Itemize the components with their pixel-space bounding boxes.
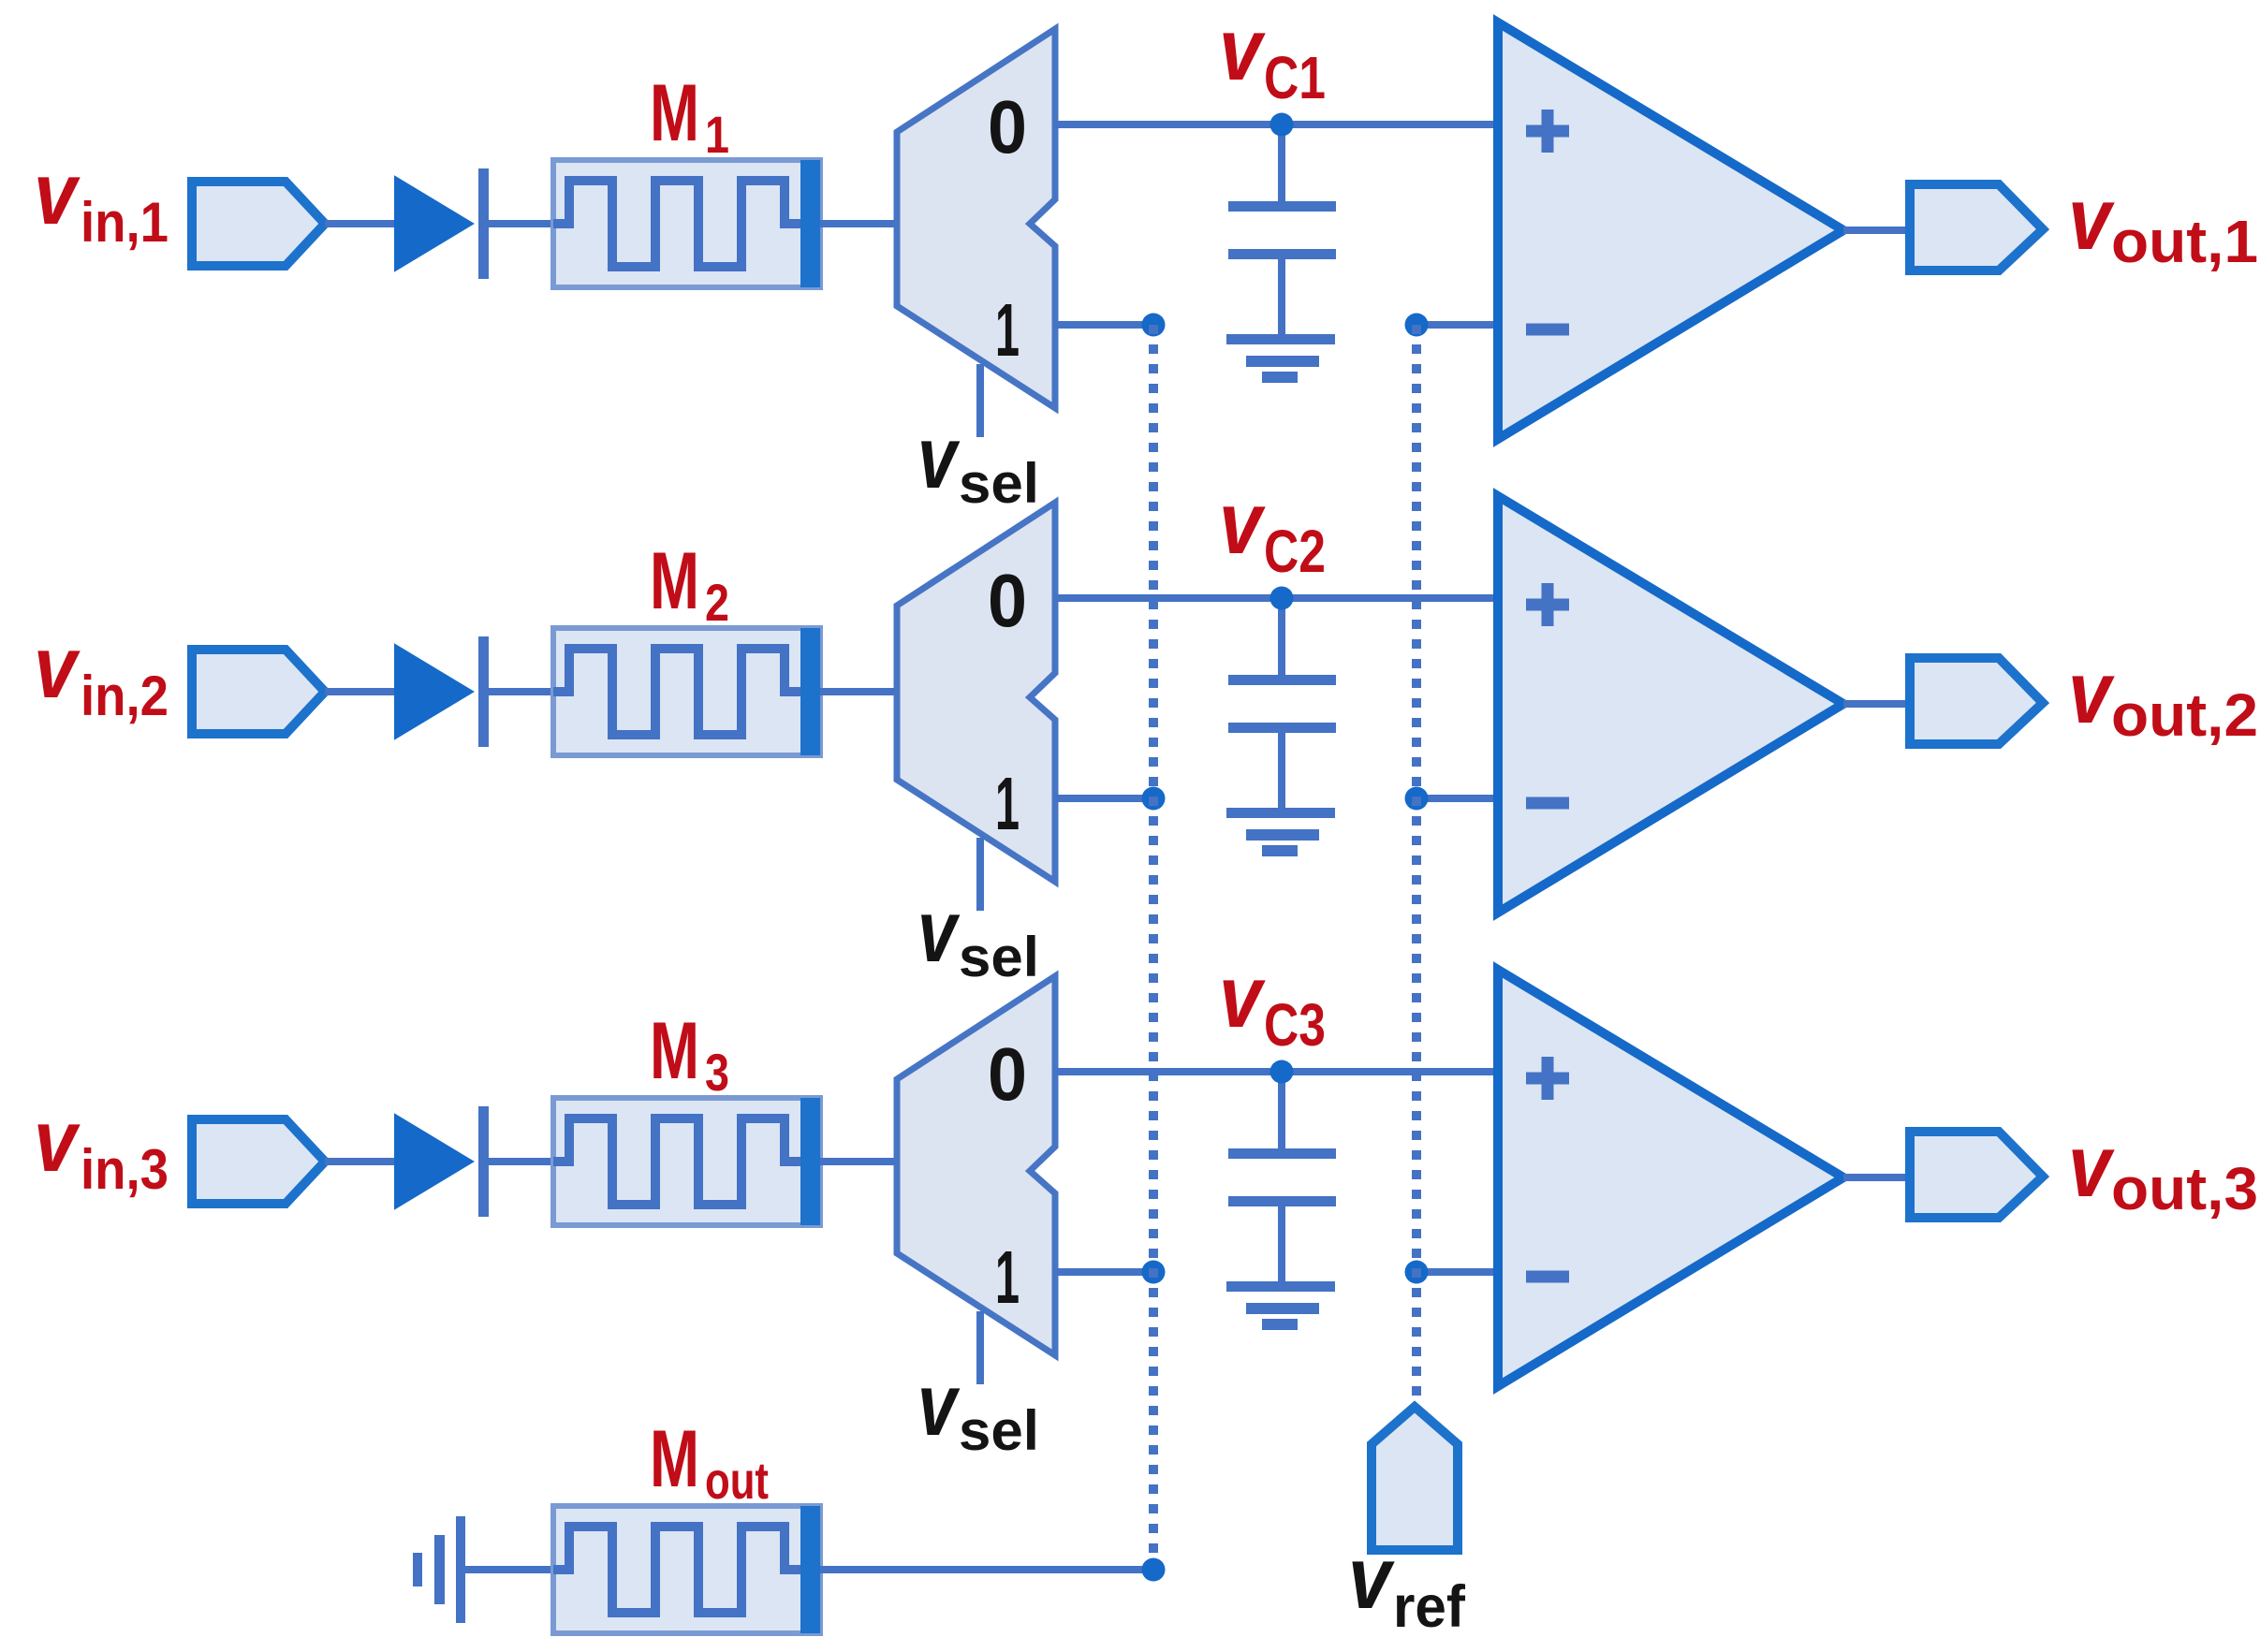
- capacitor C1 top plate: [1228, 201, 1336, 212]
- wire ground to memristor M_out: [465, 1566, 553, 1573]
- diode D1 anode triangle: [395, 177, 473, 270]
- wire capacitor C3 to ground: [1278, 1206, 1285, 1283]
- node mux U2 output-1 / v_sel bus junction: [1142, 787, 1166, 811]
- node v_ref bus junction (row 3): [1405, 1261, 1429, 1284]
- input port v_in,1: [192, 182, 325, 266]
- wire v_sel stub (mux U1): [976, 364, 984, 437]
- op-amp A3 (comparator): [1498, 970, 1843, 1386]
- capacitor C2 stem: [1278, 598, 1285, 684]
- memristor M_out zigzag element: [553, 1527, 803, 1613]
- wire mux U1 output-1 to v_sel bus: [1055, 321, 1153, 329]
- pin + (op-amp A3): [1526, 1057, 1569, 1100]
- mux U2 (2-to-1 multiplexer): [897, 503, 1055, 882]
- diode D3 cathode bar: [478, 1106, 489, 1217]
- svg-text:0: 0: [988, 559, 1027, 642]
- diode D2 cathode bar: [478, 636, 489, 747]
- wire v_sel stub (mux U2): [976, 838, 984, 911]
- memristor M1 body: [553, 160, 820, 287]
- node v_C2: [1270, 587, 1294, 610]
- wire v_ref bus to comparator A2 - input: [1416, 795, 1498, 802]
- pin + (op-amp A2): [1526, 583, 1569, 626]
- svg-text:1: 1: [995, 288, 1020, 372]
- wire memristor M2 to mux U2: [820, 688, 897, 695]
- diode D2 anode triangle: [395, 645, 473, 738]
- wire op-amp A1 output: [1843, 227, 1910, 234]
- node mux U3 output-1 / v_sel bus junction: [1142, 1261, 1166, 1284]
- ground (capacitor C3): [1226, 1281, 1335, 1330]
- capacitor C3 top plate: [1228, 1148, 1336, 1159]
- memristor M_out electrode bar: [800, 1506, 820, 1633]
- diode D1 cathode bar: [478, 168, 489, 279]
- wire v_sel stub (mux U3): [976, 1311, 984, 1384]
- wire memristor M3 to mux U3: [820, 1158, 897, 1165]
- wire memristor M1 to mux U1: [820, 220, 897, 227]
- capacitor C3 stem: [1278, 1072, 1285, 1158]
- wire mux U2 output-0 to comparator A2 + input: [1055, 594, 1498, 602]
- wire memristor M_out to v_sel bus: [820, 1566, 1153, 1573]
- wire v_sel bus (dotted): [1149, 325, 1158, 1572]
- memristor M1 electrode bar: [800, 160, 820, 287]
- memristor M3 body: [553, 1098, 820, 1225]
- pin - (op-amp A2): [1526, 797, 1569, 810]
- wire diode D3 to memristor M3: [489, 1158, 553, 1165]
- capacitor C1 bottom plate: [1228, 249, 1336, 259]
- svg-text:0: 0: [988, 85, 1027, 168]
- memristor M_out body: [553, 1506, 820, 1633]
- output port v_out,2: [1910, 658, 2043, 744]
- output port v_out,1: [1910, 184, 2043, 270]
- pin + (op-amp A1): [1526, 110, 1569, 153]
- wire mux U3 output-0 to comparator A3 + input: [1055, 1068, 1498, 1075]
- wire v_in,3 to diode D3: [325, 1158, 397, 1165]
- memristor M2 body: [553, 628, 820, 755]
- svg-text:1: 1: [995, 762, 1020, 845]
- node v_C1: [1270, 113, 1294, 137]
- capacitor C2 top plate: [1228, 675, 1336, 685]
- output port v_out,3: [1910, 1132, 2043, 1218]
- node mux U1 output-1 / v_sel bus junction: [1142, 314, 1166, 337]
- wire mux U3 output-1 to v_sel bus: [1055, 1268, 1153, 1276]
- ground (M_out input): [413, 1516, 465, 1623]
- wire v_ref bus to comparator A1 - input: [1416, 321, 1498, 329]
- input port v_ref: [1372, 1407, 1458, 1550]
- capacitor C2 bottom plate: [1228, 723, 1336, 733]
- ground (capacitor C2): [1226, 808, 1335, 856]
- node v_ref bus junction (row 1): [1405, 314, 1429, 337]
- svg-text:1: 1: [995, 1235, 1020, 1319]
- wire v_in,2 to diode D2: [325, 688, 397, 695]
- input port v_in,2: [192, 650, 325, 734]
- memristor M2 zigzag element: [553, 649, 803, 735]
- node v_ref bus junction (row 2): [1405, 787, 1429, 811]
- memristor M3 electrode bar: [800, 1098, 820, 1225]
- wire diode D2 to memristor M2: [489, 688, 553, 695]
- op-amp A2 (comparator): [1498, 496, 1843, 913]
- wire capacitor C2 to ground: [1278, 733, 1285, 810]
- op-amp A1 (comparator): [1498, 22, 1843, 439]
- memristor M2 electrode bar: [800, 628, 820, 755]
- mux U1 (2-to-1 multiplexer): [897, 29, 1055, 408]
- svg-text:0: 0: [988, 1032, 1027, 1116]
- capacitor C1 stem: [1278, 124, 1285, 211]
- mux U3 (2-to-1 multiplexer): [897, 976, 1055, 1355]
- wire mux U1 output-0 to comparator A1 + input: [1055, 121, 1498, 128]
- wire capacitor C1 to ground: [1278, 259, 1285, 336]
- memristor M1 zigzag element: [553, 181, 803, 267]
- memristor M3 zigzag element: [553, 1118, 803, 1205]
- input port v_in,3: [192, 1119, 325, 1204]
- pin - (op-amp A1): [1526, 324, 1569, 336]
- wire v_ref bus (dotted): [1412, 325, 1421, 1407]
- wire v_ref bus to comparator A3 - input: [1416, 1268, 1498, 1276]
- wire op-amp A3 output: [1843, 1174, 1910, 1181]
- wire op-amp A2 output: [1843, 700, 1910, 708]
- pin - (op-amp A3): [1526, 1271, 1569, 1283]
- node v_C3: [1270, 1060, 1294, 1084]
- wire diode D1 to memristor M1: [489, 220, 553, 227]
- wire v_in,1 to diode D1: [325, 220, 397, 227]
- node M_out / v_sel bus junction: [1142, 1558, 1166, 1582]
- wire mux U2 output-1 to v_sel bus: [1055, 795, 1153, 802]
- diode D3 anode triangle: [395, 1115, 473, 1208]
- capacitor C3 bottom plate: [1228, 1196, 1336, 1206]
- ground (capacitor C1): [1226, 334, 1335, 383]
